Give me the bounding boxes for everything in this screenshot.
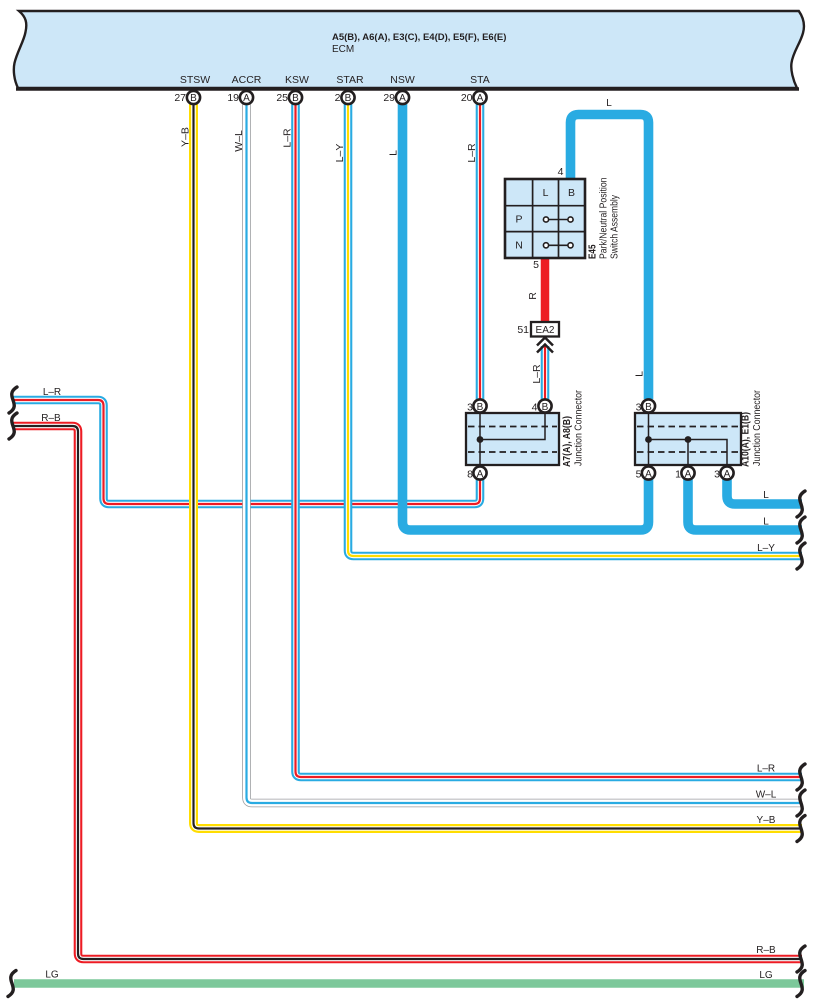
svg-text:EA2: EA2 <box>536 325 555 336</box>
svg-text:B: B <box>292 93 299 104</box>
svg-text:L: L <box>543 187 549 199</box>
svg-text:3: 3 <box>636 402 642 414</box>
svg-text:Junction Connector: Junction Connector <box>752 389 763 466</box>
svg-text:A: A <box>243 93 250 104</box>
svg-text:W–L: W–L <box>756 790 777 801</box>
svg-text:L: L <box>763 490 769 501</box>
svg-text:L: L <box>606 98 612 109</box>
svg-text:KSW: KSW <box>285 74 309 86</box>
svg-text:L–R: L–R <box>466 143 478 163</box>
svg-text:L–R: L–R <box>757 764 775 775</box>
svg-text:5: 5 <box>636 469 642 481</box>
svg-text:L–R: L–R <box>531 364 543 384</box>
svg-text:B: B <box>645 402 652 413</box>
svg-text:LG: LG <box>45 970 59 981</box>
svg-text:N: N <box>515 239 523 251</box>
svg-text:8: 8 <box>467 469 473 481</box>
svg-text:A: A <box>477 469 484 480</box>
svg-text:5: 5 <box>533 259 539 271</box>
svg-text:ACCR: ACCR <box>232 74 262 86</box>
svg-text:A: A <box>724 469 731 480</box>
svg-text:STAR: STAR <box>336 74 364 86</box>
svg-text:B: B <box>568 187 575 199</box>
svg-text:20: 20 <box>461 92 473 104</box>
svg-text:B: B <box>190 93 197 104</box>
svg-text:Park/Neutral Position: Park/Neutral Position <box>599 178 610 260</box>
svg-text:1: 1 <box>675 469 681 481</box>
svg-text:B: B <box>542 402 549 413</box>
svg-text:NSW: NSW <box>390 74 415 86</box>
svg-text:Y–B: Y–B <box>757 815 776 826</box>
svg-text:2: 2 <box>335 92 341 104</box>
svg-text:A: A <box>685 469 692 480</box>
svg-text:A10(A), E1(B): A10(A), E1(B) <box>741 412 752 467</box>
svg-text:L–Y: L–Y <box>334 144 346 163</box>
svg-text:L–R: L–R <box>43 387 61 398</box>
svg-text:R–B: R–B <box>756 945 776 956</box>
svg-text:L: L <box>763 517 769 528</box>
svg-text:W–L: W–L <box>233 130 245 152</box>
svg-text:E45: E45 <box>588 244 599 259</box>
svg-text:B: B <box>477 402 484 413</box>
svg-text:29: 29 <box>383 92 395 104</box>
svg-text:LG: LG <box>759 970 773 981</box>
svg-text:L: L <box>634 371 646 377</box>
svg-text:Y–B: Y–B <box>180 127 192 147</box>
svg-text:A7(A), A8(B): A7(A), A8(B) <box>562 416 573 467</box>
svg-text:P: P <box>515 214 522 226</box>
svg-text:L–R: L–R <box>282 128 294 148</box>
svg-text:19: 19 <box>227 92 239 104</box>
svg-text:A: A <box>399 93 406 104</box>
svg-text:A5(B), A6(A), E3(C), E4(D), E5: A5(B), A6(A), E3(C), E4(D), E5(F), E6(E) <box>332 32 506 43</box>
svg-text:51: 51 <box>517 324 529 336</box>
svg-text:B: B <box>345 93 352 104</box>
svg-text:A: A <box>645 469 652 480</box>
svg-text:R–B: R–B <box>41 413 61 424</box>
svg-text:STA: STA <box>470 74 490 86</box>
svg-text:Switch Assembly: Switch Assembly <box>610 195 621 259</box>
svg-text:27: 27 <box>174 92 186 104</box>
svg-text:A: A <box>477 93 484 104</box>
svg-text:ECM: ECM <box>332 44 354 55</box>
svg-text:L–Y: L–Y <box>757 543 775 554</box>
svg-text:4: 4 <box>532 402 538 414</box>
svg-text:L: L <box>388 150 400 156</box>
svg-text:4: 4 <box>558 166 564 178</box>
svg-text:3: 3 <box>467 402 473 414</box>
svg-text:3: 3 <box>714 469 720 481</box>
svg-text:25: 25 <box>276 92 288 104</box>
svg-text:STSW: STSW <box>180 74 210 86</box>
svg-text:R: R <box>527 292 539 300</box>
svg-text:Junction Connector: Junction Connector <box>574 389 585 466</box>
